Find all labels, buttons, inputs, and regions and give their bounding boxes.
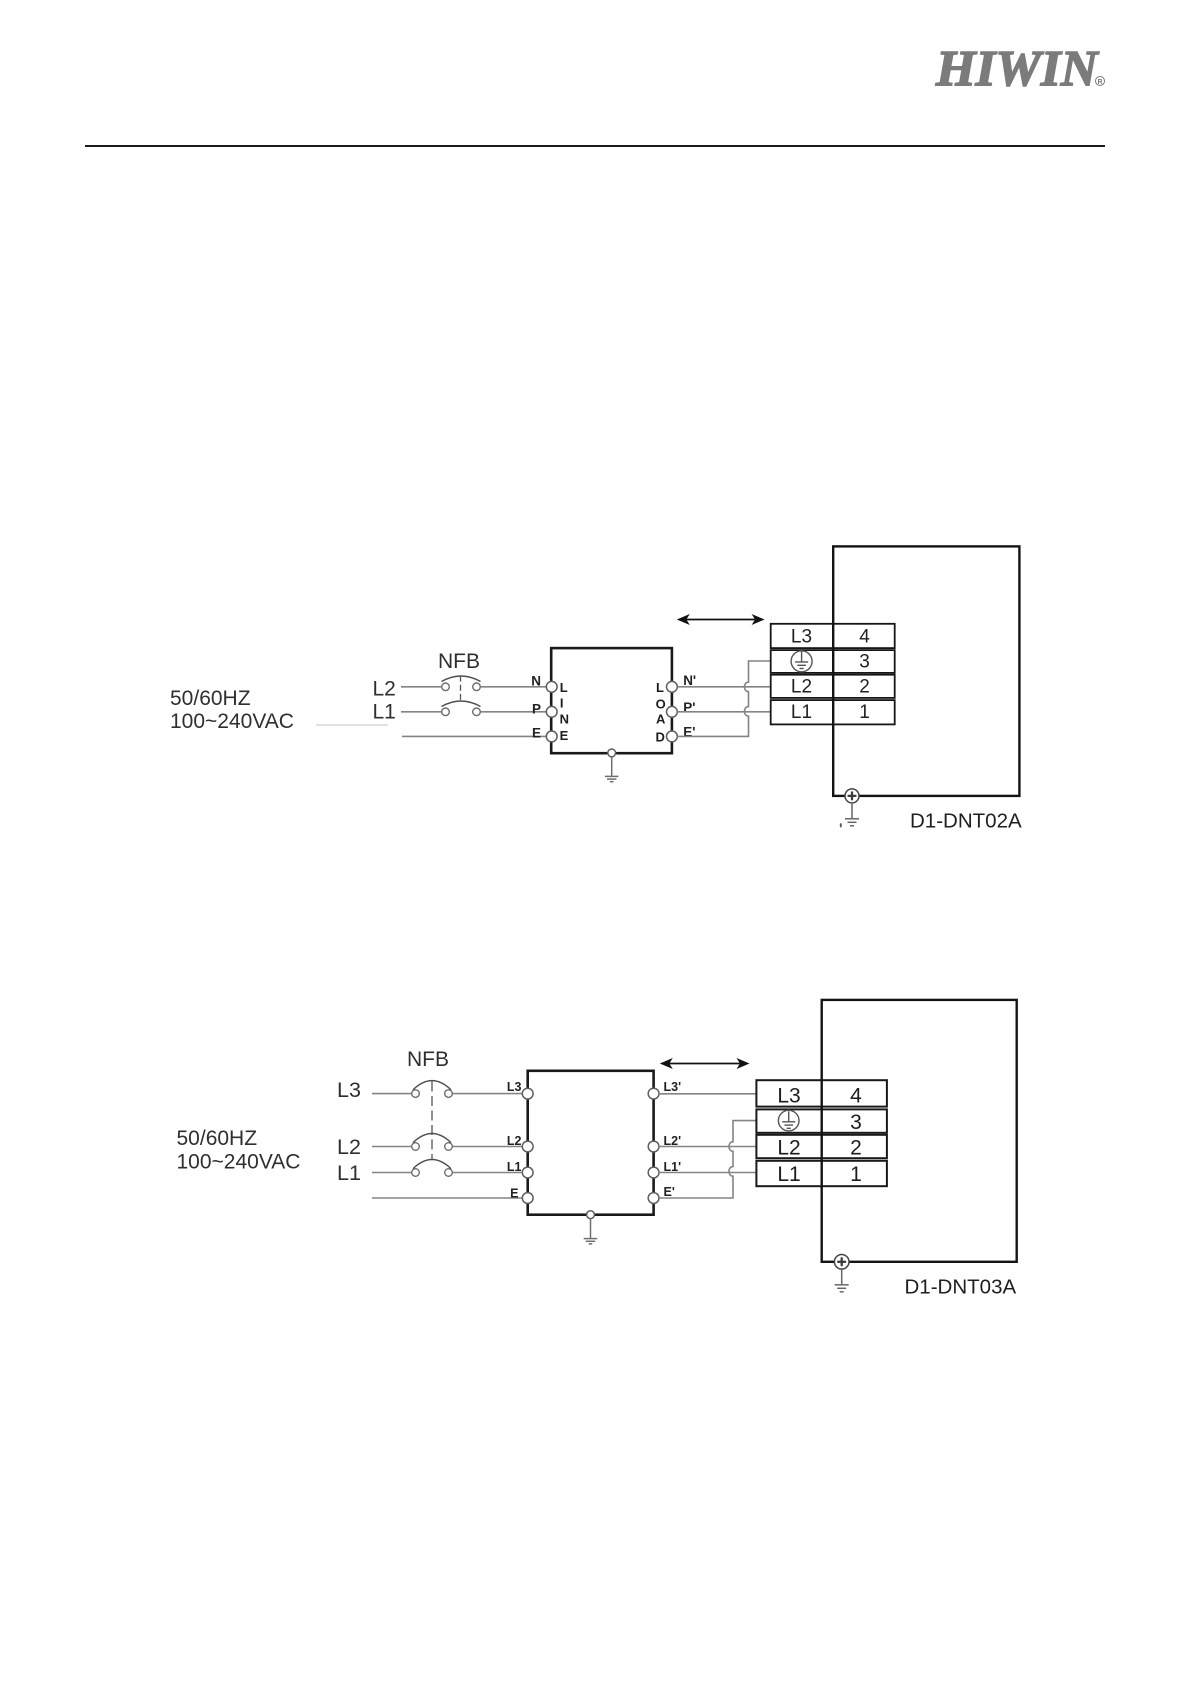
svg-text:L1: L1	[791, 702, 812, 723]
svg-text:O: O	[656, 696, 666, 711]
svg-text:L1: L1	[507, 1160, 522, 1174]
svg-text:4: 4	[859, 627, 870, 648]
svg-text:NFB: NFB	[407, 1048, 449, 1071]
svg-text:HIWIN: HIWIN	[935, 42, 1100, 98]
svg-text:100~240VAC: 100~240VAC	[177, 1151, 301, 1174]
svg-text:P': P'	[683, 700, 695, 715]
svg-text:L3: L3	[507, 1080, 522, 1094]
svg-text:P: P	[532, 702, 541, 717]
svg-text:L2: L2	[791, 676, 812, 697]
svg-text:A: A	[656, 712, 666, 727]
svg-text:L: L	[560, 680, 568, 695]
svg-text:50/60HZ: 50/60HZ	[170, 687, 251, 710]
svg-text:L2: L2	[777, 1137, 800, 1160]
svg-text:NFB: NFB	[438, 650, 480, 673]
svg-text:D1-DNT02A: D1-DNT02A	[910, 810, 1022, 833]
svg-text:N': N'	[683, 673, 696, 688]
svg-text:100~240VAC: 100~240VAC	[170, 710, 294, 733]
svg-text:E: E	[560, 728, 569, 743]
svg-text:N: N	[531, 674, 541, 689]
svg-text:2: 2	[859, 676, 870, 697]
svg-text:4: 4	[850, 1084, 862, 1107]
svg-text:L1: L1	[777, 1163, 800, 1186]
svg-text:D: D	[656, 729, 665, 744]
svg-text:N: N	[560, 712, 569, 727]
svg-text:L1: L1	[373, 701, 396, 724]
svg-text:L3': L3'	[664, 1080, 682, 1094]
svg-text:D1-DNT03A: D1-DNT03A	[905, 1276, 1017, 1299]
svg-text:I: I	[560, 696, 564, 711]
svg-text:1: 1	[850, 1163, 862, 1186]
svg-text:L3: L3	[791, 627, 812, 648]
svg-text:L3: L3	[777, 1084, 800, 1107]
svg-text:L: L	[656, 680, 664, 695]
svg-text:L1: L1	[337, 1161, 361, 1185]
svg-text:E: E	[510, 1187, 518, 1201]
svg-text:L2: L2	[373, 678, 396, 701]
svg-text:3: 3	[859, 652, 870, 673]
svg-text:3: 3	[850, 1111, 862, 1134]
svg-text:E': E'	[664, 1185, 675, 1199]
svg-text:2: 2	[850, 1137, 862, 1160]
svg-text:R: R	[1097, 79, 1102, 86]
svg-text:L3: L3	[337, 1078, 361, 1102]
svg-text:1: 1	[859, 702, 870, 723]
svg-text:E: E	[532, 726, 541, 741]
svg-text:50/60HZ: 50/60HZ	[177, 1127, 258, 1150]
svg-text:L2: L2	[507, 1134, 522, 1148]
svg-text:L2: L2	[337, 1135, 361, 1159]
